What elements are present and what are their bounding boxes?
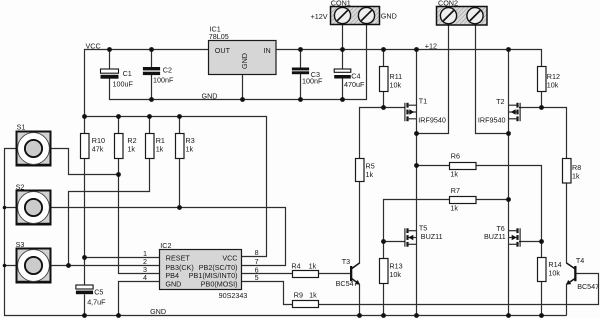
svg-text:1k: 1k bbox=[450, 170, 458, 179]
svg-text:S1: S1 bbox=[17, 122, 26, 131]
svg-text:100nF: 100nF bbox=[153, 75, 174, 84]
svg-text:1k: 1k bbox=[309, 291, 317, 300]
svg-text:BC547: BC547 bbox=[336, 279, 358, 288]
svg-text:GND: GND bbox=[165, 280, 181, 289]
svg-text:1k: 1k bbox=[572, 172, 580, 181]
svg-text:100uF: 100uF bbox=[113, 80, 134, 89]
svg-text:R9: R9 bbox=[294, 291, 303, 300]
svg-text:1k: 1k bbox=[156, 145, 164, 154]
svg-text:BUZ11: BUZ11 bbox=[421, 232, 443, 241]
svg-text:T1: T1 bbox=[419, 97, 427, 106]
svg-text:90S2343: 90S2343 bbox=[219, 291, 248, 300]
svg-text:T3: T3 bbox=[342, 257, 350, 266]
svg-text:C1: C1 bbox=[123, 69, 132, 78]
svg-text:T4: T4 bbox=[576, 256, 584, 265]
svg-text:R13: R13 bbox=[389, 261, 402, 270]
svg-text:8: 8 bbox=[255, 248, 259, 257]
svg-text:RESET: RESET bbox=[166, 254, 191, 263]
svg-text:GND: GND bbox=[150, 307, 166, 316]
svg-text:IRF9540: IRF9540 bbox=[418, 115, 446, 124]
svg-text:BUZ11: BUZ11 bbox=[484, 232, 506, 241]
svg-text:4: 4 bbox=[143, 273, 147, 282]
svg-text:IN: IN bbox=[264, 46, 271, 55]
svg-text:100nF: 100nF bbox=[302, 76, 323, 85]
svg-text:1k: 1k bbox=[309, 261, 317, 270]
svg-text:BC547: BC547 bbox=[577, 282, 599, 291]
svg-text:1k: 1k bbox=[450, 204, 458, 213]
svg-text:VCC: VCC bbox=[222, 254, 237, 263]
svg-text:GND: GND bbox=[240, 53, 249, 69]
svg-text:47k: 47k bbox=[92, 145, 104, 154]
svg-text:+12: +12 bbox=[425, 42, 437, 51]
svg-text:R6: R6 bbox=[451, 152, 460, 161]
svg-text:R4: R4 bbox=[291, 261, 300, 270]
svg-text:R7: R7 bbox=[451, 186, 460, 195]
svg-text:10k: 10k bbox=[547, 81, 559, 90]
svg-text:10k: 10k bbox=[390, 81, 402, 90]
svg-text:VCC: VCC bbox=[86, 41, 101, 50]
svg-text:IC2: IC2 bbox=[160, 241, 171, 250]
svg-text:10k: 10k bbox=[548, 269, 560, 278]
svg-text:IRF9540: IRF9540 bbox=[478, 115, 506, 124]
svg-text:S3: S3 bbox=[16, 240, 25, 249]
svg-text:C5: C5 bbox=[94, 288, 103, 297]
svg-text:1k: 1k bbox=[366, 170, 374, 179]
svg-text:GND: GND bbox=[381, 12, 397, 21]
svg-text:+12V: +12V bbox=[311, 12, 328, 21]
svg-text:CON1: CON1 bbox=[331, 0, 351, 8]
svg-text:CON2: CON2 bbox=[438, 0, 458, 8]
svg-text:7: 7 bbox=[255, 257, 259, 266]
svg-text:1k: 1k bbox=[186, 145, 194, 154]
svg-text:OUT: OUT bbox=[215, 46, 231, 55]
svg-text:PB0(MOSI): PB0(MOSI) bbox=[201, 280, 238, 289]
svg-text:5: 5 bbox=[255, 273, 259, 282]
svg-text:470uF: 470uF bbox=[344, 80, 365, 89]
svg-text:T2: T2 bbox=[496, 97, 504, 106]
svg-text:10k: 10k bbox=[389, 270, 401, 279]
svg-text:C2: C2 bbox=[163, 66, 172, 75]
svg-text:1k: 1k bbox=[127, 145, 135, 154]
svg-text:S2: S2 bbox=[16, 182, 25, 191]
svg-text:GND: GND bbox=[202, 92, 218, 101]
svg-text:78L05: 78L05 bbox=[209, 32, 229, 41]
svg-text:4,7uF: 4,7uF bbox=[87, 297, 106, 306]
